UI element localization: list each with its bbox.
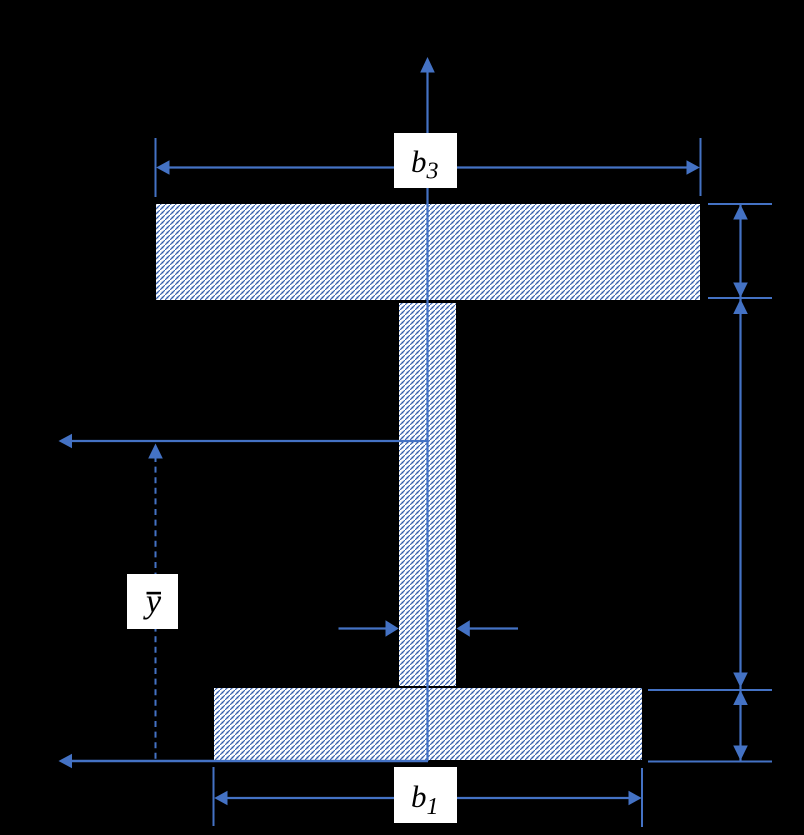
bottom datum line (base of section, arrow left): [71, 760, 428, 762]
dimension b1: extension line left: [213, 767, 215, 826]
right side: extension line at bottom of top flange: [708, 297, 772, 299]
dimension b3: left arrowhead: [156, 160, 169, 174]
bottom datum arrowhead: [59, 754, 73, 769]
web (area A2): [399, 303, 456, 686]
dimension b3: extension line left: [155, 138, 157, 197]
right side: vertical dimension line: [739, 205, 741, 761]
bottom flange thickness: upper arrowhead: [733, 690, 748, 705]
web thickness: right arrowhead (points left): [457, 620, 470, 636]
y-axis arrowhead: [420, 57, 435, 73]
y-bar overbar: [147, 592, 162, 595]
top flange thickness: upper arrowhead: [733, 205, 748, 220]
top flange (area A3): [156, 204, 700, 300]
middle span: lower arrowhead: [733, 673, 748, 688]
dimension b1: left arrowhead: [214, 791, 227, 805]
web thickness: right arrow line: [469, 627, 518, 629]
y-bar dashed dimension line: [155, 456, 157, 760]
right side: extension line at top of top flange: [708, 203, 772, 205]
dimension b1: right arrowhead: [629, 791, 642, 805]
label box b1: [394, 767, 457, 823]
label box y-bar: [127, 574, 178, 629]
bottom flange (area A1): [214, 688, 642, 760]
bottom flange thickness: lower arrowhead: [733, 746, 748, 761]
svg-text:y: y: [143, 584, 162, 621]
dimension b3: right arrowhead: [687, 160, 700, 174]
dimension b1: dimension line: [226, 797, 630, 799]
right side: extension line at top of bottom flange: [648, 689, 772, 691]
centroid line arrowhead: [59, 434, 73, 449]
label box b3: [394, 133, 457, 188]
middle span: upper arrowhead: [733, 299, 748, 314]
web thickness: left arrow line: [339, 627, 388, 629]
y-bar arrowhead (up): [148, 444, 163, 459]
vertical centroidal axis line: [426, 70, 428, 761]
dimension b3: dimension line: [168, 166, 688, 168]
dimension b3: extension line right: [700, 138, 702, 196]
web thickness: left arrowhead (points right): [386, 620, 399, 636]
right side: extension line at bottom of bottom flange: [648, 761, 772, 763]
centroid datum line (through centroid, arrow left): [71, 440, 428, 442]
top flange thickness: lower arrowhead: [733, 283, 748, 298]
dimension b1: extension line right: [641, 768, 643, 827]
